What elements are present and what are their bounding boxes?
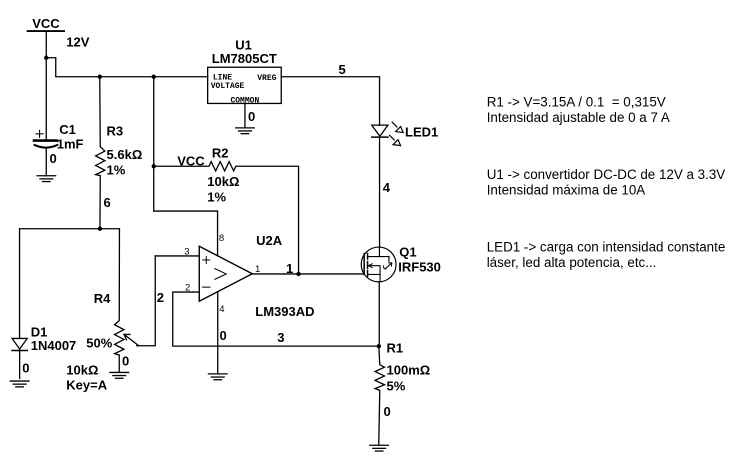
- R4 wiper arrow: [124, 334, 139, 345]
- regulator U1 box: [208, 67, 282, 103]
- svg-text:1%: 1%: [107, 163, 126, 178]
- svg-text:3: 3: [277, 330, 284, 345]
- svg-text:0: 0: [384, 404, 391, 419]
- svg-text:1mF: 1mF: [57, 136, 84, 151]
- svg-text:8: 8: [219, 233, 224, 244]
- wire net5 VREG to LED: [281, 77, 379, 125]
- svg-text:R4: R4: [94, 291, 111, 306]
- svg-text:2: 2: [157, 290, 164, 305]
- svg-text:IRF530: IRF530: [398, 259, 441, 274]
- svg-text:Intensidad ajustable de 0 a 7: Intensidad ajustable de 0 a 7 A: [487, 110, 670, 125]
- svg-text:0: 0: [122, 353, 129, 368]
- resistor R2: [154, 162, 299, 274]
- svg-text:1: 1: [286, 261, 293, 276]
- svg-text:LM393AD: LM393AD: [255, 304, 314, 319]
- svg-text:R1 -> V=3.15A / 0.1 = 0,315V: R1 -> V=3.15A / 0.1 = 0,315V: [487, 95, 666, 110]
- svg-text:5: 5: [339, 62, 346, 77]
- node VCC/R2: [152, 164, 156, 168]
- wire net6 horizontal: [20, 228, 120, 230]
- resistor R3: [96, 77, 105, 229]
- svg-text:Intensidad máxima de 10A: Intensidad máxima de 10A: [487, 182, 646, 197]
- svg-text:U2A: U2A: [256, 233, 283, 248]
- ground below R4: [110, 372, 129, 378]
- svg-text:100mΩ: 100mΩ: [387, 362, 431, 377]
- svg-text:VOLTAGE: VOLTAGE: [211, 82, 245, 91]
- diode D1: [12, 338, 27, 378]
- minus input glyph: [203, 286, 210, 288]
- wire wiper to net2 vertical: [137, 256, 156, 346]
- LED1: [372, 125, 388, 137]
- ground below R1: [370, 445, 389, 451]
- VCC power symbol: [28, 30, 65, 32]
- svg-text:10kΩ: 10kΩ: [207, 174, 239, 189]
- node R1 top: [377, 344, 381, 348]
- svg-text:R2: R2: [212, 145, 229, 160]
- svg-text:VREG: VREG: [257, 74, 276, 83]
- svg-text:U1 -> convertidor DC-DC de 12V: U1 -> convertidor DC-DC de 12V a 3.3V: [487, 167, 726, 182]
- wire pin2 input: [173, 292, 379, 346]
- plus input glyph: [203, 256, 210, 263]
- wire pin4 to ground: [217, 292, 219, 374]
- ground below U2A: [208, 374, 227, 380]
- node junction VCC/C1: [44, 56, 48, 60]
- LED1 arrow a: [392, 122, 403, 132]
- svg-text:2: 2: [185, 283, 190, 294]
- svg-text:R3: R3: [106, 124, 123, 139]
- wire VCC branch to 12V rail: [46, 58, 207, 77]
- wire pin3 input: [155, 255, 199, 257]
- wire net4 LED to Q1 drain: [379, 137, 381, 247]
- svg-text:0: 0: [219, 328, 226, 343]
- wire C1 to ground: [45, 148, 47, 176]
- wire U1 common to ground: [244, 103, 246, 127]
- node rail/VCC-vertical: [152, 75, 156, 79]
- svg-text:4: 4: [383, 180, 391, 195]
- node rail/R3: [98, 75, 102, 79]
- svg-text:1N4007: 1N4007: [31, 338, 77, 353]
- svg-text:Key=A: Key=A: [66, 377, 107, 392]
- wire VCC down to C1: [45, 31, 47, 140]
- svg-text:D1: D1: [31, 324, 48, 339]
- svg-text:12V: 12V: [66, 34, 89, 49]
- svg-text:0: 0: [248, 109, 255, 124]
- wire output net1: [252, 273, 364, 275]
- ground below C1: [37, 176, 56, 182]
- resistor R1: [375, 346, 384, 445]
- svg-text:10kΩ: 10kΩ: [66, 362, 98, 377]
- node net6 junction: [98, 227, 102, 231]
- op-amp U2A: [199, 246, 252, 301]
- svg-text:4: 4: [219, 304, 224, 315]
- svg-text:3: 3: [184, 247, 189, 258]
- svg-text:0: 0: [22, 361, 29, 376]
- svg-text:5%: 5%: [387, 379, 406, 394]
- ground below U1: [236, 128, 255, 134]
- svg-text:R1: R1: [387, 340, 404, 355]
- svg-text:Q1: Q1: [399, 245, 416, 260]
- svg-text:LED1 -> carga con intensidad c: LED1 -> carga con intensidad constante: [487, 240, 726, 255]
- wire to opamp pin8: [154, 211, 218, 256]
- capacitor C1: [34, 130, 57, 147]
- svg-text:5.6kΩ: 5.6kΩ: [107, 147, 143, 162]
- svg-text:LED1: LED1: [405, 124, 438, 139]
- svg-text:6: 6: [104, 195, 111, 210]
- potentiometer R4: [115, 229, 124, 373]
- annotation text block: [487, 95, 726, 270]
- ground below D1: [10, 381, 29, 387]
- svg-text:1%: 1%: [207, 190, 226, 205]
- svg-text:LM7805CT: LM7805CT: [212, 51, 277, 66]
- comparator caret: [215, 269, 226, 280]
- svg-text:láser, led alta potencia, etc.: láser, led alta potencia, etc...: [487, 255, 657, 270]
- svg-text:0: 0: [50, 151, 57, 166]
- svg-text:VCC: VCC: [32, 16, 60, 31]
- LED1 arrow b: [390, 135, 401, 145]
- svg-text:1: 1: [255, 264, 260, 275]
- svg-text:C1: C1: [59, 122, 76, 137]
- wire net6 down to D1: [19, 229, 21, 339]
- wire VCC vertical to R2 and opamp supply: [153, 77, 155, 211]
- svg-text:50%: 50%: [86, 336, 112, 351]
- transistor Q1: [361, 247, 396, 282]
- node output/gate: [296, 272, 300, 276]
- wire Q1 source to R1: [378, 282, 380, 346]
